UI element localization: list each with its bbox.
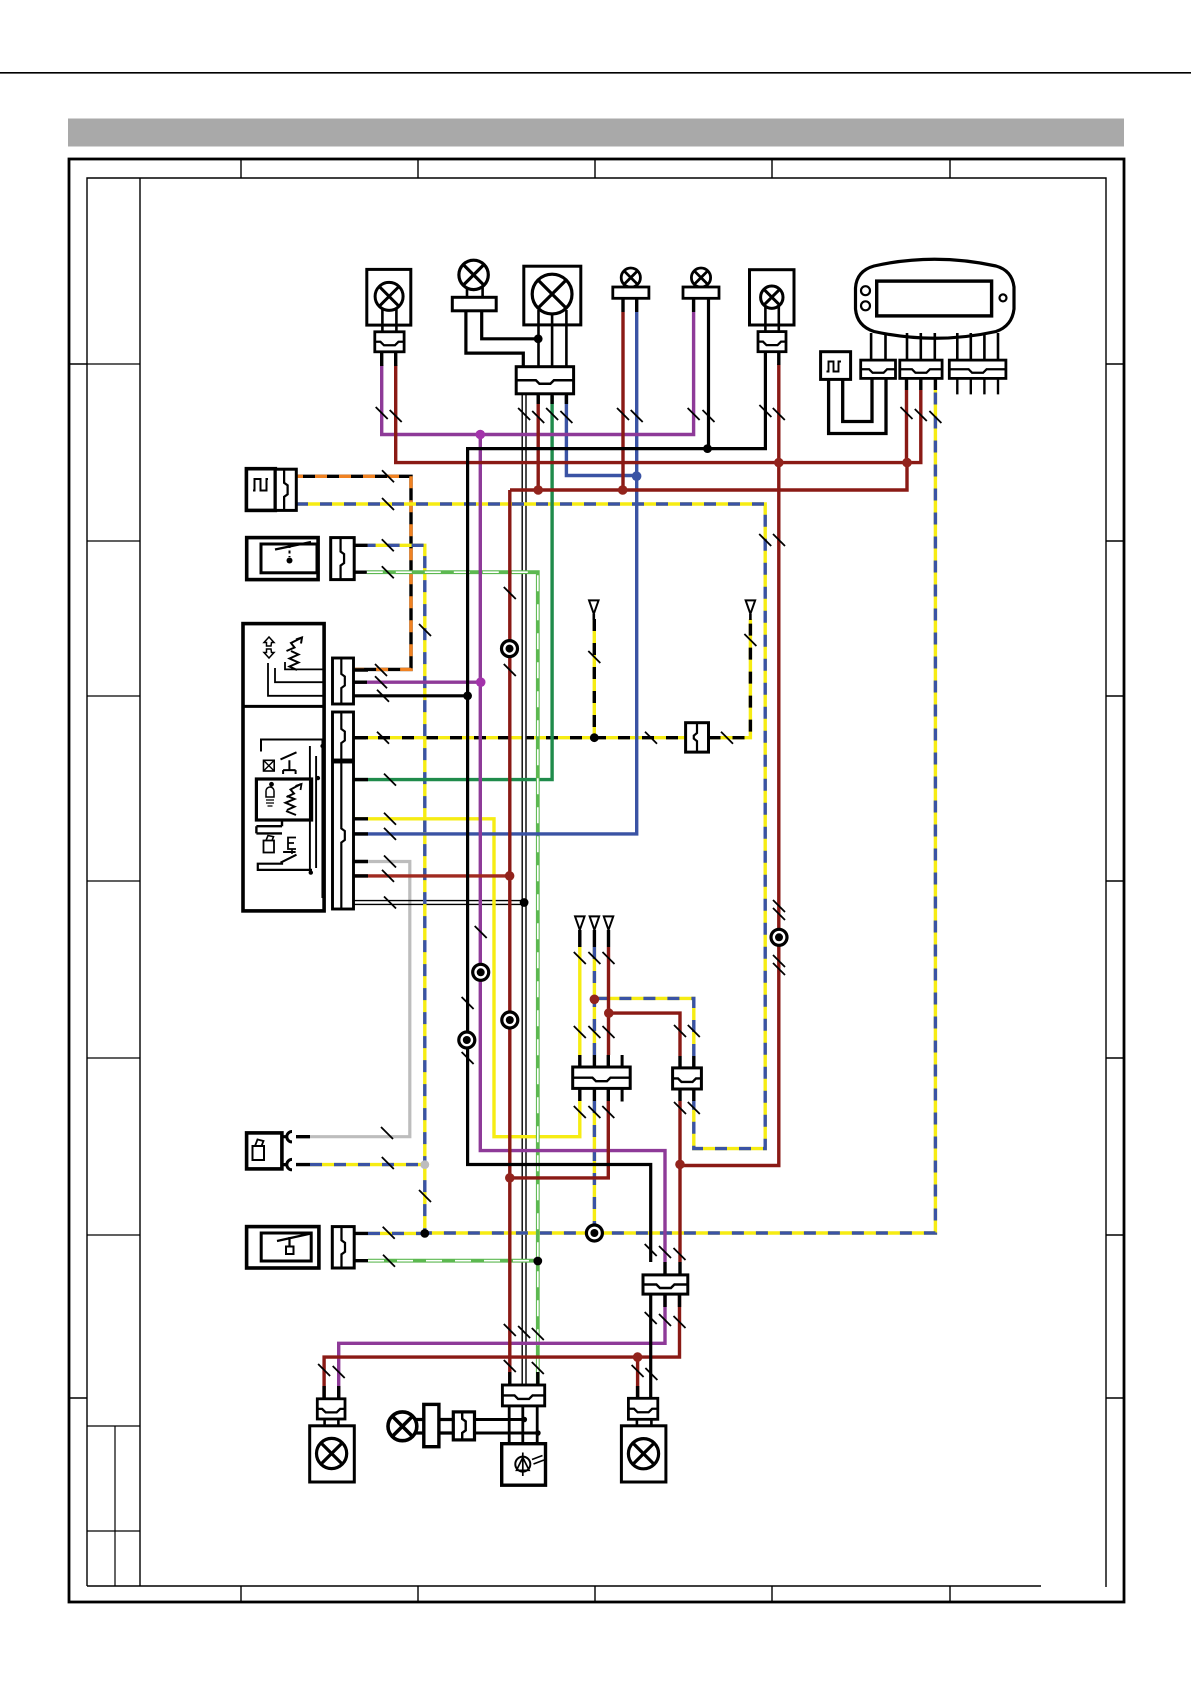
plunger switch inner frame <box>261 544 317 573</box>
tail lamp 6 pins <box>765 306 778 332</box>
plunger switch contact <box>275 542 311 550</box>
wire yellow-blue: 2-pin connector branch to antenna drop <box>594 998 693 1056</box>
wire yellow-blue: main connector to bottom bus bullet <box>593 1101 596 1233</box>
right rear lamp bulb <box>628 1439 658 1469</box>
antenna symbol lower 1 <box>575 916 585 930</box>
wire green-white: plunger switch down to ignition switch <box>367 572 538 1385</box>
control unit switch glyph lower <box>281 852 297 863</box>
plunger switch connector <box>331 538 355 580</box>
wire gray: regulator box to fuel sensor <box>310 862 410 1137</box>
double slash marks on tail lamp 6 wire <box>773 908 785 920</box>
wire maroon: headlight connector pin drop <box>537 396 540 490</box>
pulse generator glyph <box>253 479 268 491</box>
wire orange-black: pulse sensor to control box <box>296 476 411 669</box>
control unit regulator inner box <box>256 779 311 820</box>
wire purple: regulator box to bus riser <box>354 681 481 684</box>
wire maroon: antenna branch to 2-pin connector <box>609 1013 681 1056</box>
wire yellow: left antenna drop to main connector <box>578 947 581 1055</box>
wire maroon: indicator lamp drop <box>621 312 624 490</box>
indicator lamp 4 pins <box>623 286 637 288</box>
cluster connector block 1 <box>861 360 896 378</box>
left tail lamp connector <box>317 1399 345 1419</box>
speed sensor pulse glyph <box>827 362 842 372</box>
junction dots small at ignition pins <box>522 1417 528 1423</box>
wire maroon: 3-pin connector to rear lamps <box>324 1294 679 1399</box>
wire green-white: brake switch to junction <box>368 1259 538 1263</box>
control unit connector B <box>333 712 354 760</box>
control unit connector A <box>333 658 354 704</box>
indicator lamp 5 base bar <box>683 287 719 298</box>
junction dot blue <box>632 471 642 481</box>
wire blue: headlight and indicator lamp to regulator box <box>354 312 637 834</box>
wire black: regulator box pin to riser junction <box>354 694 468 697</box>
wire black: position lamp jumper to headlight pin <box>482 311 539 339</box>
wire yellow: regulator box loop to main connector <box>354 819 580 1137</box>
wire maroon: lower bus to ignition switch <box>510 463 907 1385</box>
position lamp 2 base bar <box>452 297 496 311</box>
junction dots black <box>534 334 543 343</box>
cluster connector block 3 stubs <box>957 378 998 394</box>
horn leads to ignition switch <box>475 1420 538 1434</box>
cluster connector block 3 <box>949 360 1006 378</box>
turn signal lamp 1 bulb <box>375 282 403 310</box>
fuel level sensor box <box>247 1133 282 1169</box>
turn signal lamp 1 pins <box>382 308 396 332</box>
control unit lamp icon <box>264 760 275 771</box>
plunger switch box <box>247 538 318 580</box>
wire black: position lamp jumper to connector <box>466 311 523 367</box>
top margin tick marks <box>240 159 242 178</box>
antenna symbol upper right <box>746 600 756 614</box>
position lamp 2 pins <box>467 288 483 298</box>
antenna symbol upper left <box>589 600 599 614</box>
title column line <box>139 178 141 1586</box>
control unit box <box>243 624 324 911</box>
indicator lamp 4 bulb <box>621 268 640 287</box>
indicator lamp 4 base bar <box>613 287 649 298</box>
turn signal lamp 1 connector <box>375 332 404 352</box>
control unit cdi glyph <box>287 638 303 652</box>
tail lamp 6 connector <box>758 332 786 352</box>
ignition switch symbol <box>515 1457 530 1472</box>
outer drawing border <box>69 159 1124 1602</box>
wire yellow-black bus: control box to flasher and antennas <box>354 736 686 739</box>
left margin tick marks <box>69 363 87 365</box>
cluster connector block 2 <box>900 360 942 378</box>
headlight lamp 3 pins <box>539 310 567 367</box>
antenna symbol lower 2 <box>590 916 600 930</box>
wire yellow-black: flasher to antenna riser <box>709 619 751 738</box>
wire yellow-blue: plunger switch down to fuel sensor and bottom bus <box>368 390 936 1233</box>
bullet connector rings <box>502 641 518 657</box>
right rear lamp pins <box>637 1419 652 1441</box>
junction dot gray <box>420 1160 429 1169</box>
instrument cluster display <box>877 281 992 316</box>
wire yellow-black: left antenna drop <box>593 619 596 738</box>
instrument cluster mounting hole <box>1000 294 1007 301</box>
wire purple: front lamp bus <box>382 312 694 435</box>
wire purple: 3-pin connector to left tail lamp <box>339 1294 665 1399</box>
control unit internal links upper <box>268 662 324 696</box>
control unit regulator zigzag glyph <box>287 784 302 797</box>
horn body bar <box>424 1404 439 1446</box>
wire maroon: right antenna drop to main connector <box>607 947 610 1055</box>
headlight lamp 3 box <box>524 266 581 325</box>
wire red: regulator box feed <box>354 874 510 877</box>
wire yellow-blue bus: pulse sensor across to right drop <box>296 504 765 1149</box>
fuel level sensor icon <box>253 1146 265 1160</box>
antenna symbol lower 3 <box>604 916 614 930</box>
indicator lamp 5 bulb <box>691 268 710 287</box>
control unit bottom bracket <box>258 864 312 870</box>
headlight lamp 3 connector <box>516 367 573 394</box>
wire white: headlight connector down to ignition switch <box>521 394 526 1385</box>
control unit E bracket glyph <box>288 838 296 850</box>
left tail lamp box <box>310 1426 355 1482</box>
inner drawing border <box>87 178 1106 1587</box>
title block mini table <box>87 1426 140 1586</box>
wire black: 3-pin connector to right rear lamp <box>649 1294 652 1398</box>
instrument cluster indicator holes <box>861 286 870 295</box>
speed sensor box <box>821 352 851 380</box>
gray header bar <box>68 119 1124 147</box>
control unit up-down arrows icon <box>264 637 274 646</box>
brake switch contact <box>277 1234 311 1247</box>
wire maroon: branch to right rear lamp <box>636 1357 639 1398</box>
horn prongs to connector <box>439 1420 453 1434</box>
tail lamp 6 bulb <box>761 286 783 308</box>
wire dark green: headlight connector to regulator box <box>354 396 552 780</box>
control unit compartment divider <box>243 705 324 708</box>
ignition switch connector <box>502 1385 544 1406</box>
control unit fuel pump icon <box>264 841 275 853</box>
wire yellow-blue: fuel sensor lower terminal <box>310 1163 425 1166</box>
wire yellow-blue: middle antenna drop to main connector <box>593 947 596 1055</box>
right rear lamp box <box>621 1426 666 1482</box>
brake switch inner frame <box>261 1233 311 1261</box>
horn prongs to body <box>416 1420 424 1434</box>
wire white: regulator box to junction <box>354 901 524 905</box>
right rear lamp connector <box>628 1398 657 1419</box>
turn signal lamp 1 box <box>367 269 411 325</box>
left tail lamp pins <box>325 1419 339 1441</box>
ignition switch pins <box>509 1406 537 1444</box>
wire black: lamp 5 and lamp 6 bus to regulator box riser <box>468 298 766 1262</box>
wire identification slashes <box>376 407 388 419</box>
brake switch connector <box>332 1227 354 1268</box>
page top rule <box>0 72 1191 74</box>
control unit bracket bars <box>256 820 282 833</box>
control unit switch glyph upper <box>281 752 297 774</box>
control unit regulator bulb glyph <box>266 787 274 797</box>
wire maroon: 2-pin connector through 3-pin connector <box>678 1101 681 1262</box>
horn connector <box>453 1412 474 1440</box>
instrument cluster pins <box>871 333 998 360</box>
control unit internal bracket <box>261 740 324 752</box>
left tail lamp bulb <box>317 1438 347 1468</box>
fuel level sensor terminals <box>282 1137 287 1165</box>
wire yellow-blue: brake switch to bottom bus junction <box>368 1232 425 1235</box>
wire maroon: main connector drop to ignition riser <box>510 1101 609 1178</box>
instrument cluster body <box>856 259 1015 338</box>
pulse generator connector <box>275 469 296 510</box>
main 4-pin connector <box>573 1067 631 1088</box>
wire maroon: tail lamp 6 drop <box>680 364 779 1166</box>
junction dots purple <box>476 430 486 440</box>
speed sensor link channel <box>829 378 886 433</box>
title column row dividers <box>87 363 140 365</box>
tail lamp 6 box <box>750 270 795 325</box>
brake switch box <box>247 1227 319 1268</box>
wire purple: bus drop to 3-pin connector and left tail lamp <box>480 435 665 1263</box>
control unit connector C <box>333 762 354 909</box>
3-pin connector lower <box>643 1275 688 1294</box>
headlight lamp 3 bulb <box>532 274 572 314</box>
horn bulb <box>388 1412 417 1441</box>
pulse generator box <box>246 469 275 511</box>
control unit collector lines <box>310 740 323 899</box>
black wire stubs at connector interfaces <box>324 298 935 1399</box>
2-pin connector right <box>673 1068 702 1089</box>
flasher relay box <box>686 723 709 752</box>
wire maroon: front lamp bus upper <box>396 365 907 463</box>
junction dots maroon <box>774 458 784 468</box>
bottom margin tick marks <box>240 1586 242 1602</box>
right margin tick marks <box>1106 363 1124 365</box>
position lamp 2 bulb <box>459 260 488 289</box>
wire black: main connector spare pin stubs <box>621 1055 624 1102</box>
ignition switch box <box>502 1444 546 1486</box>
wire maroon: cluster block pins to bus <box>907 390 921 463</box>
